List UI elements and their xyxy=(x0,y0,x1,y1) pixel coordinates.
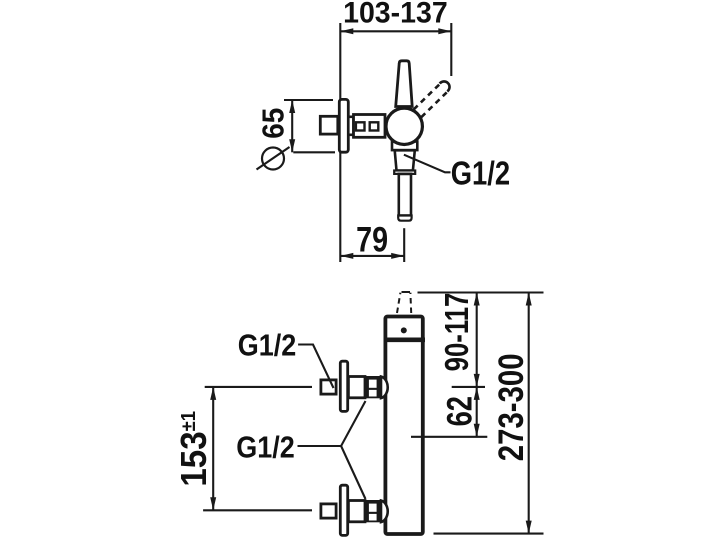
lower nut window 2 xyxy=(369,514,377,521)
svg-text:103-137: 103-137 xyxy=(343,0,448,30)
lower fitting neck xyxy=(348,501,365,522)
leader lower G1/2 V xyxy=(298,401,366,446)
extension line bottom (dia 65) xyxy=(293,151,335,153)
dimension line dia65 xyxy=(289,100,295,152)
supply stub square (top view) xyxy=(320,116,338,134)
lower nut block xyxy=(365,500,382,522)
dimension line 62 xyxy=(474,387,480,437)
mixer body xyxy=(385,317,422,535)
extension line body bottom (273-300) xyxy=(434,533,544,535)
cup under valve body xyxy=(392,142,417,151)
svg-text:153: 153 xyxy=(175,431,215,486)
dimension text 153+-1 (rotated) xyxy=(175,411,215,487)
extension line right of 103-137 xyxy=(450,23,452,76)
lower nut window 1 xyxy=(369,504,377,512)
shower pipe connection (dashed) xyxy=(397,292,411,313)
spout pipe end cap xyxy=(398,216,411,221)
spout pipe xyxy=(399,174,411,216)
svg-text:G1/2: G1/2 xyxy=(236,431,294,465)
fitting neck xyxy=(348,117,353,135)
leader upper G1/2 xyxy=(298,345,333,389)
leader line G1/2 (top view) xyxy=(404,155,451,173)
svg-text:62: 62 xyxy=(440,396,479,426)
upper nut window 2 xyxy=(369,390,377,397)
upper nut block xyxy=(365,376,382,398)
spout collar xyxy=(394,171,415,174)
nut facet right xyxy=(370,122,379,130)
handle lever (solid, vertical) xyxy=(396,61,413,107)
nut facet left xyxy=(356,122,365,130)
extension line top (dia 65) xyxy=(284,99,333,101)
dimension line 103-137 xyxy=(340,28,451,34)
svg-text:G1/2: G1/2 xyxy=(451,156,510,192)
body screw dot xyxy=(401,327,407,333)
extension line lower outlet (62) xyxy=(411,436,487,438)
extension line upper inlet (153 dim) xyxy=(205,386,312,388)
lower escutcheon xyxy=(340,485,347,535)
lower arc cap xyxy=(381,501,388,523)
valve body circle xyxy=(386,108,422,144)
escutcheon (top view, side) xyxy=(339,99,348,152)
fitting nut xyxy=(354,115,386,138)
lower supply stub xyxy=(321,504,336,518)
leader lower G1/2 arm xyxy=(341,446,365,499)
dimension line 153 xyxy=(210,387,216,510)
spout taper xyxy=(395,150,415,170)
upper escutcheon xyxy=(340,361,347,411)
svg-text:65: 65 xyxy=(256,108,291,139)
handle lever alternate position (dashed) xyxy=(414,81,450,117)
wall reference extension line (left, top view) xyxy=(339,23,341,262)
svg-text:273-300: 273-300 xyxy=(492,353,531,461)
svg-text:79: 79 xyxy=(356,220,388,259)
upper nut window 1 xyxy=(369,380,377,388)
dimension line 79 xyxy=(340,253,404,259)
extension line inlet CL (right) xyxy=(452,386,485,388)
diameter symbol xyxy=(257,147,290,170)
extension line below pipe (79 dim) xyxy=(403,228,405,262)
svg-text:±1: ±1 xyxy=(178,411,200,432)
body top band xyxy=(384,337,426,342)
upper arc cap xyxy=(381,377,388,399)
svg-text:90-117: 90-117 xyxy=(439,293,476,372)
dimension line 273-300 xyxy=(526,293,532,534)
upper supply stub xyxy=(321,380,336,394)
extension line lower inlet (153 dim) xyxy=(203,509,312,511)
upper fitting neck xyxy=(348,377,365,398)
dimension line 90-117 xyxy=(474,293,480,387)
top extension line (right dims) xyxy=(418,291,544,293)
svg-text:G1/2: G1/2 xyxy=(238,329,296,363)
